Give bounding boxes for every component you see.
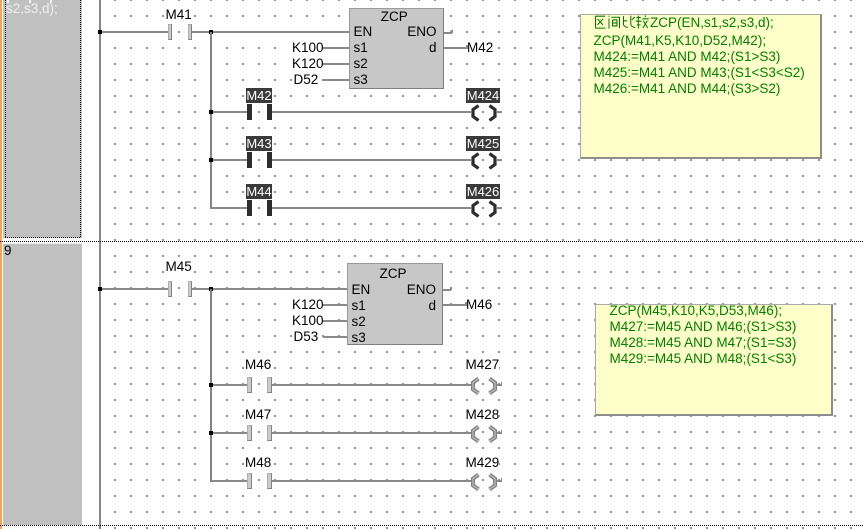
- label M47: [245, 407, 271, 423]
- operand M46 output: [466, 297, 492, 313]
- wire contact M46 to coil: [272, 384, 471, 386]
- operand D52: [294, 72, 319, 88]
- branch vertical wire section1: [210, 32, 212, 209]
- function block ZCP 1: [349, 8, 444, 89]
- coil M429 stub: [496, 480, 502, 482]
- label M424 (highlighted): [466, 88, 500, 103]
- rung M47 wire from branch: [211, 432, 248, 434]
- contact M45: [168, 281, 173, 298]
- junction branch M47: [209, 431, 214, 436]
- operand D53 input: [294, 329, 319, 345]
- operand K120 input: [290, 297, 324, 313]
- bottom separator (dotted): [0, 525, 863, 526]
- statement panel 1 text fragment (clipped line above): [7, 0, 10, 3]
- label M426 (highlighted): [466, 184, 500, 199]
- wire K120 to s1: [323, 304, 348, 306]
- function block ZCP 2: [347, 263, 443, 345]
- left power rail: [99, 0, 101, 529]
- junction rung1 branch: [209, 30, 214, 35]
- coil M424 (highlighted): [467, 104, 501, 122]
- section separator (dotted): [0, 241, 863, 242]
- CJK 区间比较 drawn as SVG: [594, 14, 650, 30]
- rung M46 wire from branch: [211, 384, 248, 386]
- contact M44 (highlighted): [247, 200, 252, 217]
- coil M429: [467, 473, 501, 491]
- label M43 (highlighted): [246, 136, 272, 151]
- comment box 2: [595, 304, 833, 416]
- wire D53 to s3: [323, 336, 348, 338]
- wire contact M43 to coil: [272, 159, 471, 161]
- label M427: [466, 357, 500, 373]
- label M41: [166, 7, 192, 23]
- rung M44 wire from branch: [211, 207, 248, 209]
- wire contact M48 to coil: [272, 480, 471, 482]
- statement panel 1 text: [6, 1, 58, 17]
- contact M42 (highlighted): [247, 104, 252, 121]
- contact M46: [247, 377, 252, 394]
- label M428: [466, 407, 500, 423]
- label M42 (highlighted): [246, 88, 272, 103]
- wire K100 to s1: [323, 47, 350, 49]
- ENO stub 2: [443, 289, 451, 291]
- wire K100 to s2: [323, 320, 348, 322]
- wire rail to contact M41: [101, 31, 168, 33]
- wire contact M42 to coil: [272, 111, 471, 113]
- statement panel 1 (gray sidebar): [3, 0, 82, 238]
- wire contact M45 to ZCP EN: [192, 288, 347, 290]
- junction on rail rung 1: [98, 30, 103, 35]
- coil M428: [467, 425, 501, 443]
- label M48: [245, 455, 271, 471]
- contact M48: [247, 473, 252, 490]
- branch vertical wire section2: [210, 289, 212, 482]
- operand K100: [290, 40, 324, 56]
- rung M42 wire from branch: [211, 111, 248, 113]
- contact M43 (highlighted): [247, 152, 252, 169]
- label M46: [245, 357, 271, 373]
- coil M426 stub: [496, 207, 502, 209]
- wire contact M41 to ZCP EN: [192, 31, 349, 33]
- coil M427 stub: [496, 384, 502, 386]
- wire d output 2: [443, 304, 467, 306]
- operand M42 output: [467, 40, 493, 56]
- operand K120: [290, 56, 324, 72]
- junction branch M42: [209, 110, 214, 115]
- wire rail to contact M45: [101, 288, 168, 290]
- coil M425 (highlighted): [467, 152, 501, 170]
- wire contact M47 to coil: [272, 432, 471, 434]
- coil M425 stub: [496, 159, 502, 161]
- wire contact M44 to coil: [272, 207, 471, 209]
- statement panel 1 dotted selection border: [5, 0, 6, 237]
- contact M47: [247, 425, 252, 442]
- coil M428 stub: [496, 432, 502, 434]
- comment box 1: [580, 14, 822, 159]
- statement panel 2 (gray sidebar): [3, 243, 82, 526]
- ENO stub: [444, 32, 452, 34]
- wire d output: [444, 47, 468, 49]
- rung M43 wire from branch: [211, 159, 248, 161]
- junction rung M45 branch: [209, 287, 214, 292]
- wire D52 to s3: [323, 79, 350, 81]
- label M425 (highlighted): [466, 136, 500, 151]
- label M44 (highlighted): [246, 184, 272, 199]
- operand K100 input: [290, 313, 324, 329]
- label M45: [166, 259, 192, 275]
- junction on rail rung M45: [98, 287, 103, 292]
- left window edge strip: [0, 0, 2, 529]
- coil M426 (highlighted): [467, 200, 501, 218]
- coil M424 stub: [496, 111, 502, 113]
- rung M48 wire from branch: [211, 480, 248, 482]
- contact M41: [168, 24, 173, 41]
- step number 9: [4, 243, 12, 259]
- coil M427: [467, 377, 501, 395]
- junction branch M46: [209, 383, 214, 388]
- junction branch M43: [209, 158, 214, 163]
- wire K120 to s2: [323, 63, 350, 65]
- label M429: [466, 455, 500, 471]
